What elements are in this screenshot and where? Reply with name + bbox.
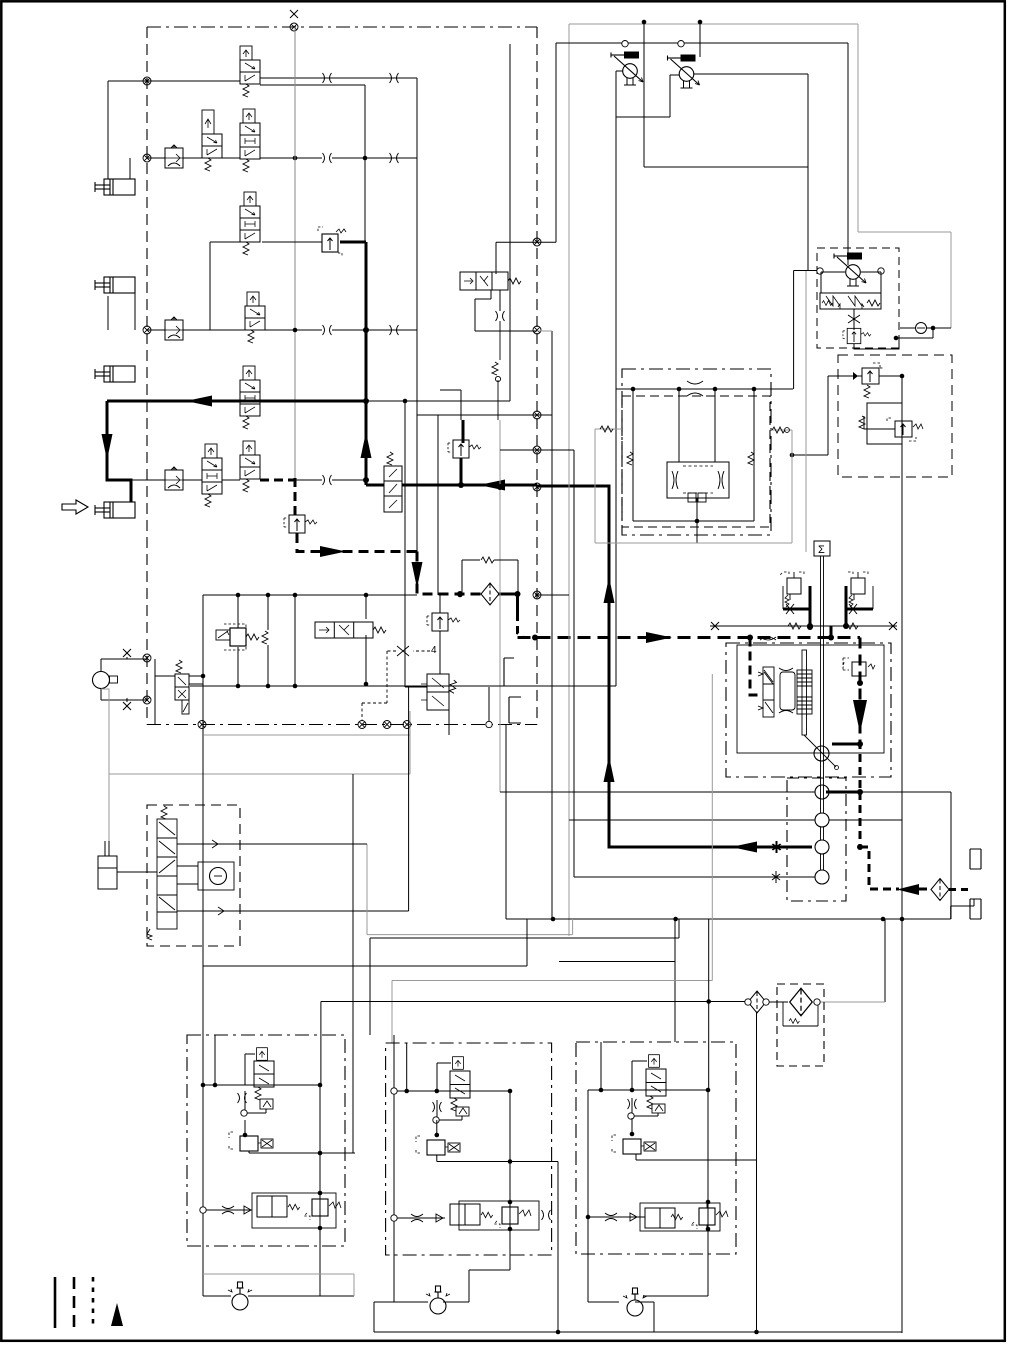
svg-text:4: 4: [431, 645, 437, 656]
junction: [318, 1151, 323, 1156]
junction: [586, 1215, 591, 1220]
swivel feed lines: [500, 792, 951, 906]
swing outer dashed box: [726, 643, 891, 777]
junction: [706, 999, 711, 1004]
gear motor B2 (travel motor): [426, 1286, 450, 1314]
cushion box dashdot: [622, 369, 771, 535]
relief valve B2-RV: [416, 1136, 460, 1155]
cylinder C1: [95, 179, 135, 195]
pump suction rect: [496, 43, 848, 274]
brake valve B2: [450, 1204, 480, 1225]
wire B3 drain: [631, 1118, 633, 1134]
spring riser: [262, 631, 268, 644]
gauge: [916, 323, 927, 334]
flow control FC3: [165, 467, 183, 490]
bold junction dots: [363, 327, 369, 333]
counterbalance valve left: [779, 572, 804, 607]
pump port plumbing: [616, 22, 817, 389]
relief R1: [318, 227, 346, 257]
valve V6a: [202, 444, 222, 507]
junction: [435, 1133, 440, 1138]
shaft double line: [821, 556, 824, 786]
relief R2: [448, 440, 481, 458]
staircase returns: [220, 687, 409, 911]
vertical pilot line x295: [294, 27, 296, 478]
pilot pump box: [817, 248, 899, 348]
bold dashed junctions: [457, 591, 463, 597]
swing relief: [843, 658, 875, 676]
cylinder C2: [95, 277, 135, 293]
orifice row4b: [390, 325, 399, 335]
lower rail y686: [190, 685, 616, 687]
wire row3: [210, 242, 322, 330]
valve V7: [384, 452, 402, 512]
pump delivery long line: [615, 115, 617, 686]
bold junction on supply row: [497, 484, 503, 490]
valve V5: [240, 366, 260, 429]
gear motor B1 (travel motor): [228, 1282, 252, 1310]
junction row2: [293, 156, 298, 161]
valve V1: [240, 46, 260, 97]
CB bold links: [783, 586, 873, 626]
wire CB to pilot rail: [830, 626, 833, 638]
regulator body: [820, 272, 881, 309]
boundary markers: [290, 10, 298, 18]
throttle X: [848, 309, 860, 330]
relief R4: [427, 613, 460, 631]
relief valve B3-CB: [691, 1202, 728, 1230]
swing inner box: [737, 645, 884, 753]
pilot pump feed: [847, 43, 849, 261]
left bottom pump unit: [93, 672, 110, 689]
gear motor B3 (blade/aux motor): [623, 1288, 647, 1316]
wire B2 drain: [436, 1120, 438, 1135]
wire B2 relief out: [437, 1155, 558, 1332]
swivel circles: [815, 785, 829, 799]
pilot dotted links: [362, 651, 430, 721]
port marker: [391, 1215, 397, 1221]
VT wires: [155, 659, 203, 725]
long vertical x574: [573, 450, 575, 877]
port marker: [200, 1207, 206, 1213]
brake valve housing B2: [459, 1201, 539, 1230]
wire row2: [147, 157, 417, 159]
needle tick on travel line: [773, 841, 781, 853]
crossing lines near box A right: [417, 405, 574, 595]
cushion top manifold: [617, 388, 794, 390]
orifice row6: [323, 475, 332, 485]
junction: [243, 1133, 248, 1138]
sigma box: [814, 541, 830, 556]
orifice under V8: [496, 311, 505, 321]
wire drain riser x353: [352, 774, 354, 1153]
alarm valve wires: [405, 401, 449, 735]
check valve B2: [436, 1214, 443, 1222]
tank port T with riser: [486, 721, 492, 727]
wire row6 thin: [131, 479, 366, 481]
relief valve B1-CB: [304, 1193, 341, 1221]
junctions: [318, 1191, 323, 1196]
solenoid valve SV1: [216, 624, 259, 650]
wire tank flange to filter: [949, 888, 970, 891]
restrictor B2: [411, 1214, 423, 1222]
swing port rail: [710, 625, 897, 627]
swing motor: [814, 746, 829, 761]
bottom return filters: [748, 991, 766, 1013]
brake valve housing B3: [640, 1203, 720, 1231]
brake valve B1: [257, 1196, 287, 1217]
gray case drain: [101, 689, 410, 856]
cushion risers: [633, 389, 754, 543]
horizontal valve HV1: [315, 622, 386, 638]
valve V2b: [240, 109, 260, 172]
RVb assembly: [867, 403, 902, 444]
valve V4: [245, 292, 265, 343]
wire return manifold to travel blocks: [321, 919, 747, 1090]
pilot pump P3: [834, 253, 866, 287]
counterbalance valve right: [848, 572, 868, 607]
wire pilot branch to brake valve: [750, 638, 763, 696]
orifice row4: [323, 325, 332, 335]
wire B3 relief out: [636, 1154, 757, 1160]
brake valve housing B1: [252, 1193, 336, 1228]
relief group box: [838, 355, 952, 477]
cylinder C3: [95, 366, 135, 382]
wire B1 relief out: [249, 1151, 355, 1153]
bold arrows: [186, 396, 212, 407]
pilot line x510: [366, 44, 510, 401]
restrictor B1: [222, 1206, 234, 1214]
travel alarm valve HV2: [421, 674, 457, 710]
relief valve B3-RV: [612, 1135, 656, 1154]
orifice row2b: [390, 153, 399, 163]
filter F1 on pilot feed: [481, 583, 499, 605]
valve V2a: [202, 110, 222, 171]
wire motor drain stub: [832, 743, 860, 746]
drain spring leak: [498, 321, 500, 420]
swivel joint box: [787, 778, 846, 901]
wire B1 brake row: [203, 1209, 252, 1211]
steering valve stack: [147, 806, 177, 940]
check valve B1: [244, 1206, 251, 1214]
pump P1: [611, 52, 643, 86]
pilot tap line (gray): [569, 24, 951, 936]
wire B3 brake row: [588, 1216, 645, 1218]
bold path cylinder feed: [107, 242, 812, 847]
bottom long rail: [374, 1302, 902, 1332]
CB thin frames: [783, 586, 873, 609]
relief R5: [843, 328, 871, 343]
relief RVa: [862, 363, 883, 398]
swivel needle marks: [772, 841, 780, 853]
orifice row1: [323, 73, 332, 83]
bold dashed row6: [260, 478, 970, 890]
wire swivel to return: [826, 791, 860, 794]
relief valve B2-CB: [494, 1201, 531, 1229]
steering box: [147, 805, 240, 946]
long vertical x203: [202, 595, 204, 1296]
valve V3: [240, 192, 260, 255]
restrictor B3: [605, 1213, 617, 1221]
check valve B3: [630, 1213, 637, 1221]
R3 relief (bold pilot path): [284, 515, 317, 533]
pilot pump outlet: [854, 328, 951, 349]
pump P2: [668, 55, 700, 89]
cushion drain rail (gray): [595, 429, 792, 543]
junction row4: [293, 328, 298, 333]
wire B2 brake row: [394, 1217, 445, 1219]
steering motor: [198, 862, 234, 890]
valve V8 (2-speed select): [460, 272, 521, 290]
cylinder C4: [95, 502, 135, 518]
rail risers: [238, 595, 366, 686]
wire row1 risers: [365, 78, 417, 415]
RVa wires: [792, 376, 902, 455]
steering wires: [117, 844, 367, 911]
steering cylinder: [98, 841, 117, 889]
svg-text:Σ: Σ: [818, 544, 825, 556]
command arrow (outline): [62, 500, 88, 514]
cushion center body: [667, 462, 729, 498]
flow control FC1: [165, 145, 183, 168]
junction: [508, 1159, 513, 1164]
travel speed valve VT: [175, 660, 189, 714]
junction: [630, 1132, 635, 1137]
enclosure box A: [147, 27, 537, 725]
relief valve B1-RV: [229, 1132, 273, 1151]
tank flange right: [970, 849, 981, 919]
right long verticals: [885, 376, 902, 1333]
cushion side springs: [595, 429, 792, 430]
V8 drain plumbing: [475, 290, 552, 331]
left pilot rail: [203, 594, 569, 596]
orifice row2: [323, 153, 332, 163]
left tank flanges: [504, 658, 521, 723]
wire row4: [108, 285, 417, 330]
wire row1: [108, 78, 417, 179]
R2 feed: [440, 390, 461, 420]
brake valve B3: [645, 1208, 675, 1228]
filter F1 bypass loop: [462, 560, 518, 596]
swing brake valve cluster: [758, 650, 812, 735]
boundary marker ports (bottom): [358, 721, 366, 729]
orifice B2: [542, 1210, 551, 1220]
bold dashed arrows: [320, 546, 346, 557]
gray drain to swivel: [499, 420, 501, 792]
flow control FC2: [165, 317, 183, 340]
R4 risers: [439, 595, 441, 674]
valve V6b: [240, 441, 260, 492]
return filter F2: [931, 879, 949, 901]
wire B1 drain: [244, 1120, 246, 1135]
